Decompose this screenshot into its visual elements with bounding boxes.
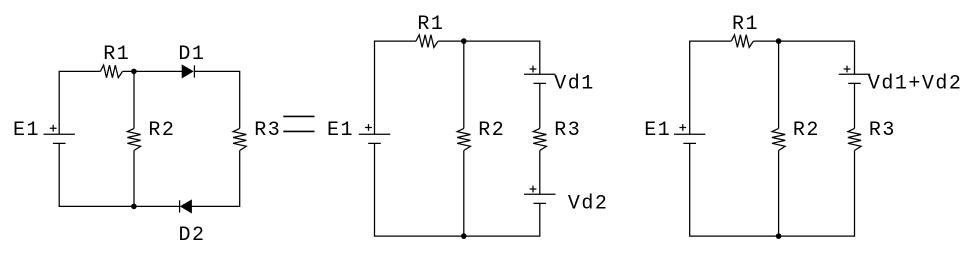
- svg-text:R3: R3: [554, 119, 581, 142]
- svg-text:D1: D1: [178, 43, 205, 66]
- svg-text:E1: E1: [327, 119, 354, 142]
- svg-text:R2: R2: [148, 119, 175, 142]
- svg-text:R3: R3: [869, 119, 896, 142]
- svg-text:R1: R1: [103, 43, 130, 66]
- svg-text:Vd1: Vd1: [554, 73, 595, 96]
- svg-text:R2: R2: [478, 119, 505, 142]
- svg-text:Vd2: Vd2: [568, 193, 609, 216]
- svg-text:D2: D2: [179, 224, 206, 247]
- svg-text:R3: R3: [254, 119, 281, 142]
- svg-text:R2: R2: [793, 119, 820, 142]
- svg-text:R1: R1: [417, 13, 444, 36]
- svg-text:R1: R1: [732, 13, 759, 36]
- svg-text:E1: E1: [644, 119, 671, 142]
- svg-text:E1: E1: [13, 119, 40, 142]
- svg-text:Vd1+Vd2: Vd1+Vd2: [868, 73, 963, 96]
